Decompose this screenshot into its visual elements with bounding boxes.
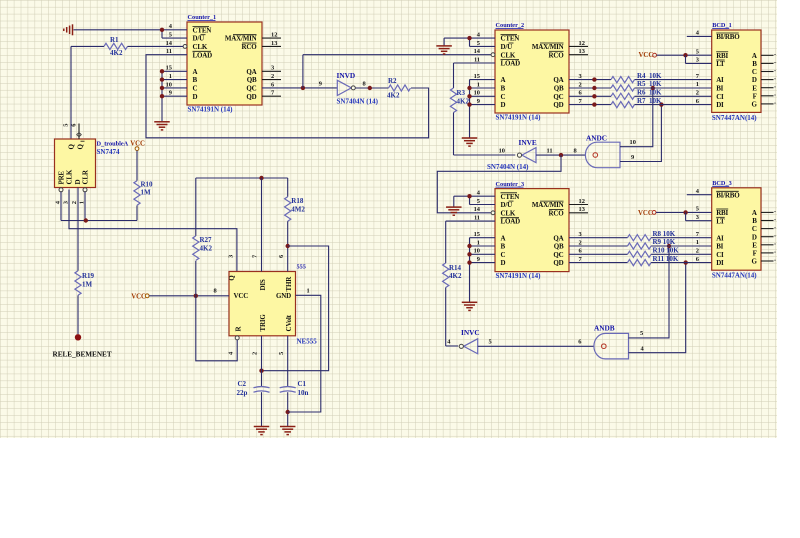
svg-text:22p: 22p <box>237 389 248 397</box>
svg-text:B: B <box>752 217 757 225</box>
wire ground to CTEN pin4 Counter_1 <box>74 30 188 38</box>
power VCC node 1 <box>130 140 145 180</box>
decoder U BCD_1 SN7447AN body <box>696 22 761 122</box>
svg-text:R9 10K: R9 10K <box>653 238 676 246</box>
power VCC node 4 <box>638 210 712 217</box>
wires A,B,C,D Counter_1 tie <box>162 71 187 121</box>
svg-text:B: B <box>501 243 506 251</box>
svg-text:MAX/MIN: MAX/MIN <box>532 43 564 51</box>
svg-text:DIS: DIS <box>259 279 267 290</box>
wire D SN7474 down to R19 <box>77 188 79 271</box>
svg-text:INVE: INVE <box>519 138 537 147</box>
svg-text:RCO: RCO <box>549 51 565 59</box>
svg-text:A: A <box>501 234 506 242</box>
svg-text:QC: QC <box>553 251 563 259</box>
resistor R7 10K <box>611 97 662 108</box>
junction dots A-D Counter_1 <box>160 69 164 98</box>
resistor R5 10K <box>611 80 662 91</box>
svg-text:R18: R18 <box>291 197 304 205</box>
svg-text:RELE_BEMENET: RELE_BEMENET <box>53 351 112 359</box>
svg-text:Q: Q <box>77 144 85 150</box>
svg-text:12: 12 <box>579 40 585 47</box>
svg-text:SN74191N (14): SN74191N (14) <box>496 114 542 122</box>
wire ANDB input 4 from QD row <box>629 263 686 353</box>
timer U 555 NE555 body <box>214 254 318 355</box>
resistor R10 1M <box>134 180 153 205</box>
svg-text:QB: QB <box>247 76 257 84</box>
svg-text:SN7447AN(14): SN7447AN(14) <box>712 114 757 122</box>
svg-text:A: A <box>501 76 506 84</box>
svg-text:Q: Q <box>228 275 236 281</box>
svg-text:CTEN: CTEN <box>501 193 520 201</box>
wire ground to CTEN pin4 Counter_2 <box>444 38 495 46</box>
svg-text:CLK: CLK <box>193 43 208 51</box>
svg-text:Q: Q <box>68 144 76 150</box>
svg-text:A: A <box>752 52 757 60</box>
resistor R4 10K <box>611 72 662 83</box>
svg-text:2: 2 <box>696 248 699 255</box>
ground at CTEN Counter_3 <box>446 196 462 215</box>
svg-text:D: D <box>501 259 506 267</box>
svg-text:C: C <box>501 93 506 101</box>
svg-text:D: D <box>752 233 757 241</box>
svg-text:R27: R27 <box>200 236 213 244</box>
wire TRIG pin2 down to C2 <box>261 336 263 387</box>
svg-text:2: 2 <box>696 90 699 97</box>
svg-text:3: 3 <box>579 231 582 238</box>
stub pin4 BI/RBO BCD_3 <box>687 194 712 196</box>
junction VCC / R27 / reset <box>194 294 198 298</box>
MAX/MIN RCO stubs Counter_3 <box>569 205 588 213</box>
svg-text:14: 14 <box>166 40 173 47</box>
junction C1/GND return <box>286 410 290 414</box>
svg-text:D/U: D/U <box>193 35 205 43</box>
wire Q of SN7474 up to R1 <box>71 46 104 139</box>
svg-text:R14: R14 <box>449 264 462 272</box>
svg-text:CLR: CLR <box>82 169 90 184</box>
svg-text:5: 5 <box>696 48 699 55</box>
svg-text:VCC: VCC <box>131 293 146 300</box>
wire CLK SN7474 to 555 Q <box>69 190 237 272</box>
svg-text:R1: R1 <box>110 36 119 44</box>
svg-text:2: 2 <box>71 201 78 204</box>
wire VCC to LT pin3 <box>686 55 712 63</box>
junction CTEN/D-U Counter_2 <box>467 36 471 40</box>
svg-text:8: 8 <box>214 287 217 294</box>
svg-text:2: 2 <box>271 73 274 80</box>
junction INVE/ANDC node <box>559 153 563 157</box>
svg-text:CLK: CLK <box>66 169 74 184</box>
svg-text:SN7447AN(14): SN7447AN(14) <box>712 272 757 280</box>
svg-text:CTEN: CTEN <box>193 26 212 34</box>
svg-text:E: E <box>752 241 757 249</box>
resistor R2 4K2 <box>387 77 411 99</box>
svg-text:1: 1 <box>307 287 310 294</box>
svg-text:10n: 10n <box>298 389 309 397</box>
svg-text:AI: AI <box>716 76 724 84</box>
svg-text:RCO: RCO <box>242 43 258 51</box>
svg-text:14: 14 <box>474 206 481 213</box>
svg-text:LT: LT <box>716 60 725 68</box>
right stubs pins 12,13,3,2,7 Counter_1 <box>262 38 281 96</box>
svg-text:BI/RBO: BI/RBO <box>716 191 740 199</box>
svg-text:C: C <box>752 68 757 76</box>
svg-text:D_troubleA: D_troubleA <box>97 140 129 147</box>
svg-text:10: 10 <box>166 81 172 88</box>
inverter INVD SN7404N <box>319 71 379 106</box>
resistor R1 4K2 <box>104 36 128 57</box>
svg-text:15: 15 <box>474 73 480 80</box>
resistor R18 4M2 <box>285 197 306 222</box>
right stubs A-G BCD_3 <box>761 212 776 261</box>
resistor R9 10K <box>628 238 676 249</box>
svg-text:RCO: RCO <box>549 209 565 217</box>
svg-text:VCC: VCC <box>638 210 653 217</box>
svg-text:5: 5 <box>696 206 699 213</box>
junction TRIG node <box>259 369 263 373</box>
svg-text:10: 10 <box>499 147 505 154</box>
capacitor C2 22p <box>237 380 270 397</box>
svg-text:1: 1 <box>169 73 172 80</box>
svg-text:5: 5 <box>477 198 480 205</box>
wire R14 to INVC output <box>446 288 458 347</box>
svg-text:2: 2 <box>252 352 259 355</box>
wire THR to TRIG loop <box>262 246 329 371</box>
svg-text:5: 5 <box>640 330 643 337</box>
resistor R10 10K <box>628 247 680 258</box>
svg-text:4K2: 4K2 <box>387 91 400 99</box>
svg-text:QA: QA <box>246 68 256 76</box>
svg-text:1: 1 <box>696 81 699 88</box>
wire LOAD Counter_3 to R14 <box>446 221 495 263</box>
svg-text:GND: GND <box>276 292 291 300</box>
wire ANDC input 9 from QD <box>620 105 661 162</box>
svg-text:DI: DI <box>716 101 724 109</box>
svg-text:RBI: RBI <box>716 52 728 60</box>
svg-text:R4 10K: R4 10K <box>637 72 662 80</box>
svg-text:14: 14 <box>474 48 481 55</box>
svg-text:B: B <box>193 76 198 84</box>
svg-text:ANDB: ANDB <box>594 324 615 333</box>
svg-text:15: 15 <box>474 231 480 238</box>
junction R9 tap <box>667 244 671 248</box>
svg-text:G: G <box>751 258 757 266</box>
wire ANDB input 5 from QB row <box>629 246 670 338</box>
svg-text:INVC: INVC <box>461 328 480 337</box>
right stubs A-G BCD_1 <box>761 55 776 104</box>
svg-text:A: A <box>193 68 198 76</box>
svg-text:SN7404N (14): SN7404N (14) <box>337 98 379 106</box>
svg-text:MAX/MIN: MAX/MIN <box>225 35 257 43</box>
junction QB tap <box>651 86 655 90</box>
svg-text:CI: CI <box>716 93 724 101</box>
svg-text:11: 11 <box>166 48 172 55</box>
svg-text:INVD: INVD <box>337 71 356 80</box>
pin bubbles PRE CLR <box>59 188 87 192</box>
svg-text:CI: CI <box>716 251 724 259</box>
junction QD tap <box>659 102 663 106</box>
svg-text:5: 5 <box>477 40 480 47</box>
svg-text:R19: R19 <box>82 272 95 280</box>
svg-text:G: G <box>751 101 757 109</box>
wire QC node up to Counter_2 CLK <box>303 55 491 88</box>
resistor R3 4K2 <box>450 88 469 113</box>
wire PRE/CLR tie to R10 <box>61 192 137 221</box>
wire reset: VCC node down to pin4 R <box>196 296 237 361</box>
svg-text:12: 12 <box>579 198 585 205</box>
wire R18 to THR pin6 <box>287 221 289 271</box>
wire LOAD Counter_1 loop to R2 <box>146 55 429 138</box>
ground sideways top-left <box>64 24 73 35</box>
svg-text:1M: 1M <box>141 189 152 197</box>
junction VCC RBI/LT <box>683 53 687 57</box>
svg-text:SN74191N (14): SN74191N (14) <box>188 106 234 114</box>
svg-text:13: 13 <box>579 48 585 55</box>
junction R11 tap <box>684 260 688 264</box>
svg-text:D/U: D/U <box>501 43 513 51</box>
svg-text:R3: R3 <box>457 89 466 97</box>
wire LOAD Counter_2 to R3 <box>454 63 496 88</box>
D flip-flop D_troubleA SN7474 <box>55 123 129 205</box>
ground under A-D tie Counter_2 <box>462 138 478 146</box>
pin 14 CLK clock bubble Counter_3 <box>491 211 495 215</box>
svg-text:11: 11 <box>547 147 553 154</box>
junction dots B,C,D Counter_3 <box>467 244 471 265</box>
wire CVolt pin5 down to C1 <box>287 336 289 387</box>
svg-text:CVolt: CVolt <box>285 314 293 331</box>
svg-text:10: 10 <box>474 90 480 97</box>
svg-text:R5 10K: R5 10K <box>637 80 662 88</box>
junction VCC RBI/LT BCD_3 <box>683 210 687 214</box>
svg-text:5: 5 <box>63 124 70 127</box>
svg-text:B: B <box>501 85 506 93</box>
svg-text:BI/RBO: BI/RBO <box>716 33 740 41</box>
wire VCC node up through R27 to DIS rail <box>195 178 197 296</box>
svg-text:ANDC: ANDC <box>586 133 607 142</box>
junction QC node <box>301 86 305 90</box>
wire node down to Counter_3 CLK <box>437 155 561 213</box>
counter U Counter_3 SN74191N body <box>474 181 585 280</box>
wire rail to R18 <box>287 178 289 197</box>
svg-text:QB: QB <box>554 243 564 251</box>
pin 14 CLK clock bubble Counter_1 <box>183 45 187 49</box>
ground under C2 <box>254 427 270 435</box>
inverter INVE SN7404N (mirrored) <box>487 138 553 171</box>
junction CTEN/D-U <box>160 28 164 32</box>
svg-text:D: D <box>193 93 198 101</box>
svg-text:1M: 1M <box>82 281 93 289</box>
svg-text:4K2: 4K2 <box>449 272 462 280</box>
ground under A-D tie Counter_3 <box>462 302 478 310</box>
wire ANDC input 10 from QB <box>620 88 653 147</box>
svg-text:QA: QA <box>553 76 563 84</box>
wire R3 to INVE output <box>454 113 516 156</box>
svg-text:4M2: 4M2 <box>291 205 305 213</box>
svg-text:LOAD: LOAD <box>193 51 213 59</box>
svg-text:QD: QD <box>246 93 256 101</box>
svg-text:LT: LT <box>716 217 725 225</box>
svg-text:CLK: CLK <box>501 51 516 59</box>
wire INVC input to ANDB output <box>478 345 595 347</box>
wire INVE input to ANDC output <box>536 154 586 156</box>
svg-text:VCC: VCC <box>639 52 654 59</box>
svg-text:R11 10K: R11 10K <box>653 255 679 263</box>
svg-text:A: A <box>752 209 757 217</box>
svg-text:9: 9 <box>169 90 172 97</box>
svg-text:CLK: CLK <box>501 209 516 217</box>
svg-text:1: 1 <box>477 239 480 246</box>
svg-text:CTEN: CTEN <box>501 35 520 43</box>
svg-text:R7 10K: R7 10K <box>637 97 662 105</box>
svg-text:D/U: D/U <box>501 201 513 209</box>
svg-text:9: 9 <box>477 256 480 263</box>
svg-text:DI: DI <box>716 259 724 267</box>
ground under C1 <box>280 427 296 435</box>
resistor R11 10K <box>628 255 679 266</box>
svg-text:13: 13 <box>271 40 277 47</box>
wire R1 to CLK pin14 Counter_1 <box>128 45 184 47</box>
wires QA-QD Counter_2 to BCD_1 <box>569 80 712 105</box>
counter U Counter_1 SN74191N body <box>166 14 278 113</box>
svg-text:11: 11 <box>474 215 480 222</box>
svg-text:R10: R10 <box>141 180 154 188</box>
svg-text:5: 5 <box>169 32 172 39</box>
svg-text:QD: QD <box>553 259 563 267</box>
svg-text:9: 9 <box>477 98 480 105</box>
svg-text:LOAD: LOAD <box>501 218 521 226</box>
svg-text:C2: C2 <box>238 380 247 388</box>
svg-text:R2: R2 <box>388 77 397 85</box>
pin 14 CLK clock bubble Counter_2 <box>491 53 495 57</box>
pin 4 R bubble 555 <box>235 336 239 340</box>
AND gate ANDC (mirrored NAND) <box>574 133 636 167</box>
MAX/MIN RCO stubs Counter_2 <box>569 46 588 54</box>
svg-text:3: 3 <box>696 214 699 221</box>
svg-text:D: D <box>752 76 757 84</box>
svg-text:3: 3 <box>696 57 699 64</box>
svg-text:B: B <box>752 60 757 68</box>
capacitor C1 10n <box>280 380 309 397</box>
inverter INVC SN7404N (mirrored) <box>447 328 491 354</box>
svg-text:5: 5 <box>489 339 492 346</box>
wire DIS rail horizontal <box>196 177 288 179</box>
svg-text:9: 9 <box>319 80 322 87</box>
junction CLR tie <box>84 218 88 222</box>
wire CTEN pin4 Counter_3 <box>454 196 495 204</box>
svg-text:E: E <box>752 84 757 92</box>
svg-text:R8 10K: R8 10K <box>653 230 676 238</box>
resistor R8 10K <box>628 230 676 241</box>
junction DIS tap <box>259 176 263 180</box>
svg-text:8: 8 <box>574 147 577 154</box>
svg-text:10: 10 <box>630 139 636 146</box>
svg-text:LOAD: LOAD <box>501 60 521 68</box>
svg-text:AI: AI <box>716 234 724 242</box>
svg-text:BI: BI <box>716 243 723 251</box>
svg-text:QC: QC <box>246 85 256 93</box>
svg-text:F: F <box>753 250 757 258</box>
wire C2 to ground <box>261 392 263 426</box>
junction dots QA-QD bus <box>592 77 596 106</box>
svg-text:15: 15 <box>166 65 172 72</box>
svg-text:5: 5 <box>278 352 285 355</box>
svg-text:C1: C1 <box>298 380 307 388</box>
svg-text:4K2: 4K2 <box>110 49 123 57</box>
svg-text:MAX/MIN: MAX/MIN <box>532 201 564 209</box>
wires A-D tie Counter_2 <box>470 80 496 138</box>
svg-text:8: 8 <box>363 80 366 87</box>
wire QC Counter_1 to INVD input <box>262 87 337 89</box>
svg-text:BI: BI <box>716 85 723 93</box>
junction dots B,C,D Counter_2 <box>467 86 471 107</box>
svg-text:D: D <box>501 101 506 109</box>
svg-text:555: 555 <box>297 263 306 270</box>
svg-text:TRIG: TRIG <box>259 314 267 332</box>
svg-text:C: C <box>501 251 506 259</box>
svg-text:13: 13 <box>579 206 585 213</box>
svg-text:QB: QB <box>554 85 564 93</box>
svg-text:2: 2 <box>579 81 582 88</box>
svg-text:3: 3 <box>271 65 274 72</box>
svg-text:12: 12 <box>271 32 277 39</box>
wires A-D tie Counter_3 <box>470 238 496 302</box>
svg-text:SN74191N (14): SN74191N (14) <box>496 272 542 280</box>
svg-text:SN7404N (14): SN7404N (14) <box>487 163 529 171</box>
wire VCC to LT pin3 BCD_3 <box>686 212 712 220</box>
svg-text:VCC: VCC <box>130 140 145 147</box>
ground under Counter_1 <box>154 122 170 130</box>
svg-text:VCC: VCC <box>234 292 249 300</box>
wire INVD output to R2 <box>355 87 388 89</box>
wire R19 to net node <box>77 295 79 334</box>
svg-text:4K2: 4K2 <box>200 245 213 253</box>
wire GND pin1 loop to C1 <box>288 295 321 412</box>
svg-text:QD: QD <box>553 101 563 109</box>
resistor R14 4K2 <box>443 263 462 288</box>
svg-text:PRE: PRE <box>58 171 66 185</box>
svg-text:9: 9 <box>631 154 634 161</box>
svg-text:2: 2 <box>579 239 582 246</box>
svg-text:10: 10 <box>474 248 480 255</box>
power VCC node 2 <box>131 293 229 300</box>
svg-text:C: C <box>193 85 198 93</box>
svg-text:SN7474: SN7474 <box>97 148 120 156</box>
AND gate ANDB (mirrored NAND) <box>578 324 644 359</box>
wire C1 to ground <box>287 392 289 426</box>
svg-text:3: 3 <box>227 255 234 258</box>
node RELE_BEMENET <box>53 334 112 358</box>
junction THR node <box>286 244 290 248</box>
svg-text:3: 3 <box>579 73 582 80</box>
svg-text:QC: QC <box>553 93 563 101</box>
wires QA-QD Counter_3 to BCD_3 <box>569 238 712 263</box>
wire DIS pin7 down <box>261 178 263 272</box>
svg-text:QA: QA <box>553 234 563 242</box>
svg-text:RBI: RBI <box>716 209 728 217</box>
ground at CTEN Counter_2 <box>436 38 452 54</box>
counter U Counter_2 SN74191N body <box>474 22 585 121</box>
svg-text:THR: THR <box>285 276 293 292</box>
svg-text:R10 10K: R10 10K <box>653 247 680 255</box>
decoder U BCD_3 SN7447AN body <box>696 180 761 280</box>
svg-text:F: F <box>753 92 757 100</box>
junction CTEN/D-U Counter_3 <box>467 194 471 198</box>
resistor R6 10K <box>611 89 662 100</box>
svg-text:C: C <box>752 225 757 233</box>
svg-text:NE555: NE555 <box>297 337 318 345</box>
svg-text:1: 1 <box>477 81 480 88</box>
resistor R19 1M <box>75 271 95 296</box>
